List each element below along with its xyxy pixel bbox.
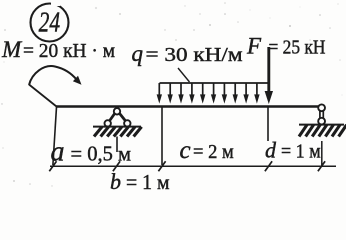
pin support A triangle legs [108,111,127,123]
pin support apex hinge circle [114,108,120,114]
roller support hatching [299,125,307,137]
svg-text:= 2 м: = 2 м [193,141,234,163]
pin support right roller circle [124,120,130,126]
svg-text:= 0,5 м: = 0,5 м [71,141,132,165]
label a = 0,5 m [51,136,132,167]
extension line below roller [321,141,323,166]
svg-text:F: F [246,34,262,59]
dimension line [50,165,336,167]
pin support hatching [94,127,102,137]
svg-text:= 1 м: = 1 м [126,170,170,193]
pin support left roller circle [105,120,111,126]
svg-text:= 1 м: = 1 м [281,141,321,163]
roller support link plates [320,110,323,119]
roller support bottom circle [318,118,325,125]
label b = 1 m [110,169,170,194]
distributed load q arrows [158,83,160,96]
label d = 1 m [265,138,321,163]
q leader line [178,68,190,82]
problem number circle 24 [31,1,69,42]
roller support ground line [299,124,344,126]
moment arc arrow [29,66,82,85]
svg-text:q: q [132,41,144,66]
label c = 2 m [180,137,235,164]
faint scan smudges bottom-left [13,180,15,182]
roller support top circle [318,104,325,111]
distributed load q top line [160,82,271,84]
svg-text:c: c [180,137,191,164]
svg-text:= 30 кН/м: = 30 кН/м [146,44,243,66]
label q = 30 kN/m [132,41,243,66]
dimension ticks [49,161,56,171]
svg-text:24: 24 [39,6,61,38]
scan noise speckles [184,5,185,6]
beam [56,105,322,107]
force F arrow [265,47,273,104]
left extension line (beam end) [53,107,57,165]
svg-text:= 20 кН · м: = 20 кН · м [23,40,115,62]
label F = 25 kN [246,34,326,59]
extension line below pin support [116,137,118,153]
svg-text:= 25 кН: = 25 кН [269,37,326,59]
pin support ground line [93,126,141,128]
svg-text:a: a [51,136,65,167]
moment leader line to beam end [29,85,57,107]
svg-text:M: M [1,37,23,62]
extension line at q start [161,107,163,165]
svg-text:d: d [265,138,277,163]
extension line at F / d boundary [267,107,269,141]
label M = 20 kN*m [1,37,115,62]
svg-text:b: b [110,169,121,193]
